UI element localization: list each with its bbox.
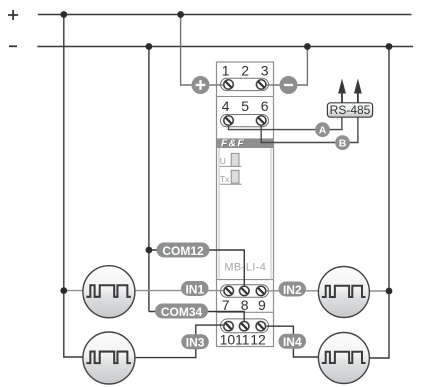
junction on + rail at supply branch (177, 11, 184, 18)
svg-text:8: 8 (241, 297, 249, 313)
svg-text:IN4: IN4 (283, 335, 302, 349)
svg-text:12: 12 (250, 332, 266, 348)
pulse generator G3 (lower left) (83, 332, 135, 384)
RS-485 label box (327, 103, 372, 117)
terminal screw 11 (239, 321, 250, 331)
wire IN4 from terminal 12 to lower-right pulse generator (266, 326, 320, 357)
svg-text:Tx: Tx (220, 174, 230, 184)
terminal screw 10 (223, 321, 234, 331)
junction on - rail at right drop (386, 43, 393, 50)
svg-text:4: 4 (222, 98, 230, 114)
svg-text:RS-485: RS-485 (330, 103, 371, 117)
wire + rail (38, 14, 412, 16)
svg-text:IN3: IN3 (186, 336, 205, 350)
svg-text:F&F: F&F (221, 137, 245, 149)
RS-485 arrow B (354, 79, 362, 103)
svg-text:10: 10 (220, 332, 236, 348)
svg-text:B: B (339, 138, 347, 150)
terminal screw 1 (223, 79, 234, 89)
svg-text:6: 6 (261, 98, 269, 114)
pulse generator G4 (lower right) (318, 333, 369, 384)
svg-text:MB-LI-4: MB-LI-4 (224, 262, 266, 274)
svg-text:U: U (220, 156, 226, 166)
wire COM12 branch to terminal 8 (149, 250, 244, 291)
wire IN1 run from left pulse generator to terminal 7 (65, 290, 225, 292)
terminal screw 3 (256, 79, 267, 89)
LED U indicator (220, 153, 242, 166)
terminal screw 7 (223, 286, 234, 296)
wire COM vertical from - rail (148, 47, 150, 312)
label badge IN2 (279, 282, 307, 297)
label badge COM34 (155, 304, 208, 319)
wire supply + branch to terminal 1 (181, 15, 225, 86)
wire B from terminal 6 to node B (261, 121, 335, 143)
terminal screw 6 (256, 115, 267, 125)
terminal screw 12 (255, 321, 266, 331)
svg-text:1: 1 (222, 62, 230, 78)
label badge IN1 (181, 281, 209, 296)
junction on - rail at COM drop (146, 43, 153, 50)
svg-text:7: 7 (222, 297, 230, 313)
node A (RS-485 line A) (315, 122, 330, 137)
node plus terminal circle (192, 76, 210, 94)
LED Tx indicator (220, 170, 242, 184)
terminal block 10-12 (221, 319, 269, 333)
svg-text:COM12: COM12 (162, 244, 204, 258)
wire COM34 branch to terminal 11 (149, 312, 244, 327)
junction on left drop at generator G1 (60, 287, 67, 294)
svg-text:5: 5 (241, 98, 249, 114)
svg-text:2: 2 (241, 62, 249, 78)
node minus terminal circle (280, 76, 298, 94)
junction on - rail at minus branch (304, 43, 311, 50)
wire - rail (37, 46, 413, 48)
node - (minus supply label) (9, 45, 17, 47)
wire IN2 run from terminal 9 to right pulse generator (266, 290, 390, 292)
wire right drop from - rail to right pulse generators (370, 47, 390, 359)
svg-text:11: 11 (235, 332, 250, 348)
svg-text:IN1: IN1 (185, 282, 204, 296)
terminal screw 9 (256, 286, 267, 296)
node B (RS-485 line B) (335, 135, 350, 150)
terminal block 4-6 (221, 115, 269, 127)
svg-text:3: 3 (261, 62, 269, 78)
junction on COM vertical at COM12 (146, 247, 153, 254)
terminal screw 8 (239, 286, 250, 296)
svg-text:COM34: COM34 (161, 305, 203, 319)
junction on right drop at generator G2 (386, 288, 393, 295)
wire A from node A to RS-485 (330, 117, 342, 129)
wire IN3 from terminal 10 to lower-left pulse generator (134, 325, 225, 358)
device MB-LI-4 module body (217, 62, 274, 347)
F&F logo band (217, 137, 274, 150)
terminal block 1-3 (221, 78, 269, 90)
pulse generator G1 (upper left) (83, 266, 135, 318)
wire A from terminal 4 to node A (229, 121, 316, 130)
node + (plus supply label) (8, 10, 18, 20)
svg-text:A: A (319, 125, 327, 137)
svg-text:9: 9 (258, 297, 266, 313)
wire B from node B to RS-485 (350, 117, 358, 142)
label badge IN4 (279, 334, 307, 349)
junction on + rail at left drop (60, 11, 67, 18)
label badge IN3 (181, 334, 209, 349)
label badge COM12 (157, 243, 210, 258)
wire supply - branch from terminal 3 (266, 47, 308, 86)
svg-text:IN2: IN2 (283, 283, 302, 297)
pulse generator G2 (upper right) (318, 267, 369, 318)
terminal screw 4 (223, 115, 234, 125)
RS-485 arrow A (338, 79, 346, 103)
wire left drop from + rail to left pulse generators (64, 15, 84, 358)
terminal block 7-9 (221, 285, 269, 298)
